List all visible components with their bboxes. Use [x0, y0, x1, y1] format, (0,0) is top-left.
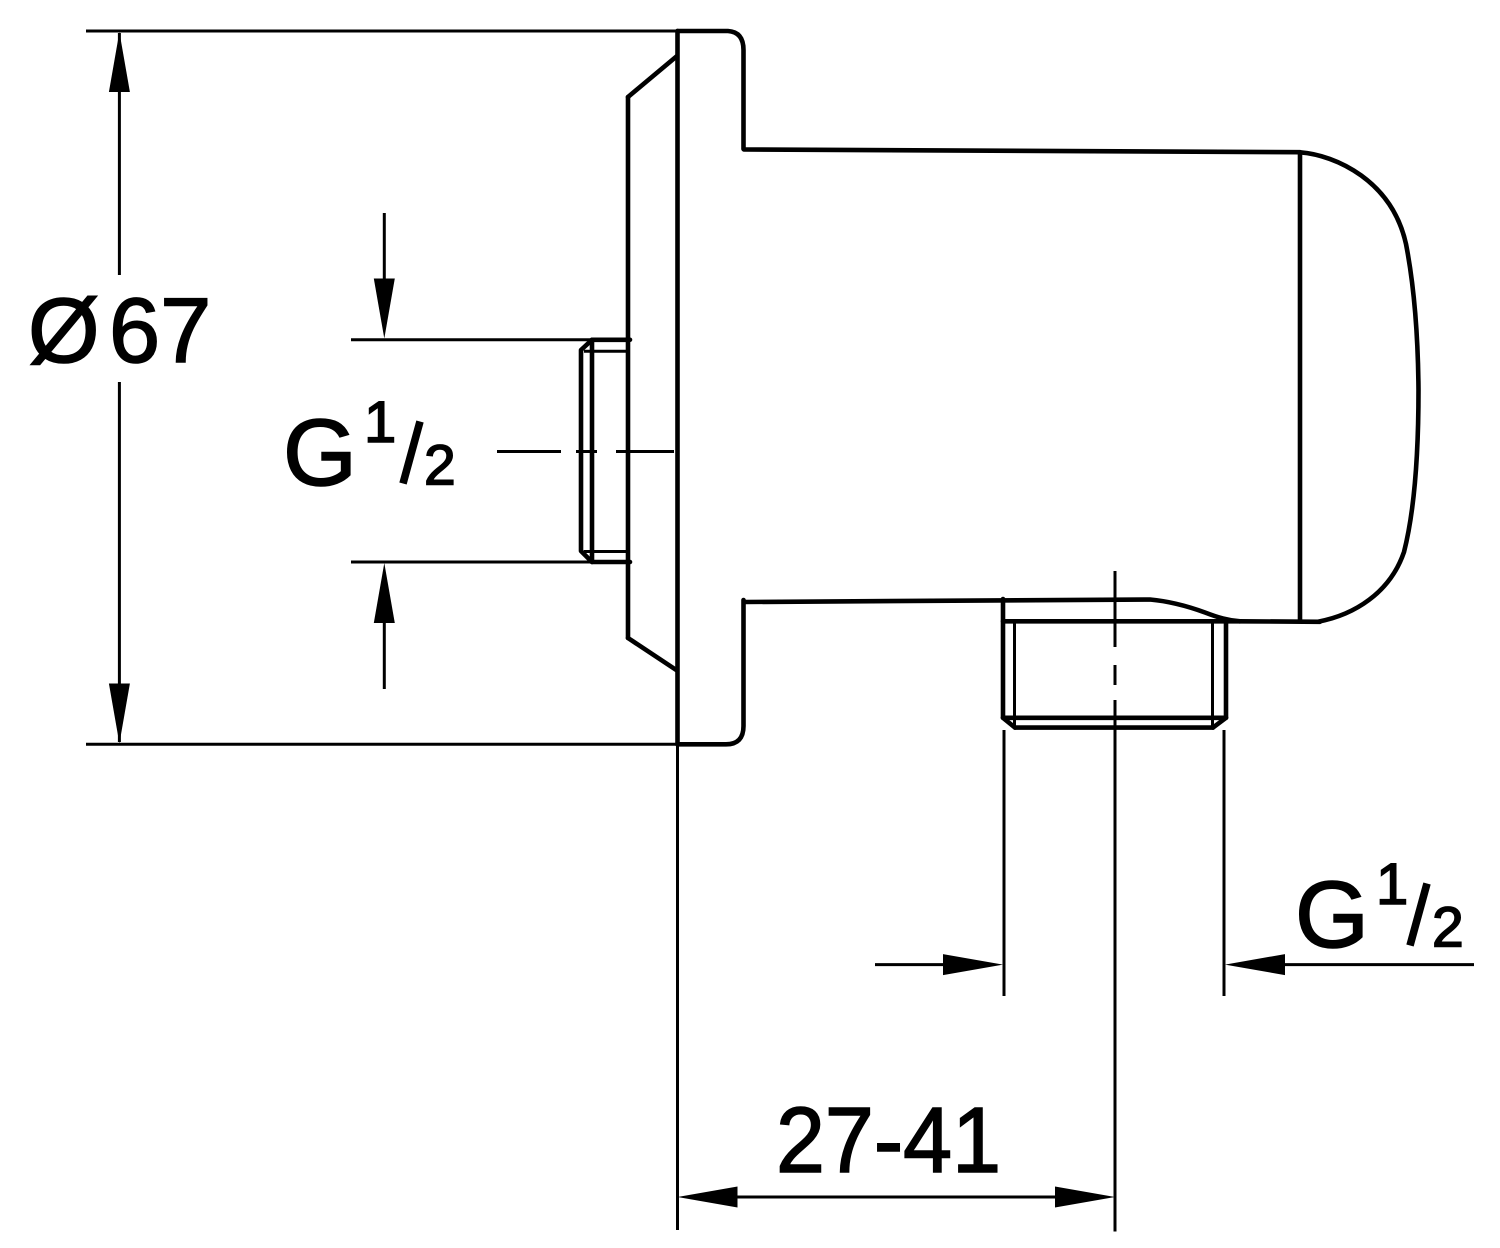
dia67 extension line bottom: [86, 743, 680, 746]
G12 left arrow line bottom: [383, 621, 386, 689]
flange cone upper chamfer: [628, 56, 677, 97]
flange bottom rim: [679, 600, 744, 744]
27-41 extension line: [676, 746, 679, 1230]
end cap joint line: [1298, 153, 1303, 622]
bottom outlet major line: [1003, 715, 1226, 720]
svg-text:27-41: 27-41: [776, 1088, 1001, 1192]
G12 left arrowhead down: [374, 279, 395, 339]
bottom outlet left chamfer: [1003, 718, 1015, 728]
bottom outlet minor diameter left: [1013, 622, 1016, 726]
27-41 arrowhead left: [678, 1187, 738, 1208]
G12 bottom dimension line left: [875, 963, 945, 966]
left thread minor diameter bottom: [584, 550, 630, 553]
G12 left extension line top: [351, 338, 595, 341]
left thread nipple outline: [581, 340, 630, 562]
svg-text:Ø: Ø: [28, 280, 100, 382]
dia67 dimension line: [118, 33, 121, 742]
svg-text:1: 1: [364, 390, 396, 455]
G12 bottom arrowhead left: [1225, 954, 1285, 975]
svg-text:2: 2: [424, 434, 456, 498]
svg-text:67: 67: [109, 280, 211, 382]
27-41 dimension line: [736, 1196, 1056, 1199]
G12 bottom dimension line right: [1283, 963, 1474, 966]
bottom outlet extension line left: [1003, 730, 1006, 996]
dia67 arrowhead down: [109, 684, 130, 744]
flange top rim: [678, 31, 744, 149]
bottom outlet minor diameter right: [1211, 622, 1214, 726]
body bottom line: [744, 600, 1240, 622]
body bottom rear line: [1003, 619, 1320, 624]
G12 left label fraction slash: [403, 422, 420, 484]
G12 left arrow line top: [383, 213, 386, 281]
left thread chamfer edge: [590, 340, 595, 562]
flange cone edge: [626, 97, 631, 638]
G12 bottom label fraction slash: [1410, 884, 1427, 946]
body top line: [744, 150, 1300, 153]
svg-text:G: G: [1295, 862, 1369, 968]
bottom outlet left edge: [1001, 599, 1006, 718]
left thread centerline: [497, 450, 674, 453]
svg-text:1: 1: [1376, 852, 1408, 917]
bottom outlet right edge: [1224, 622, 1229, 718]
left thread minor diameter top: [584, 350, 630, 353]
svg-text:G: G: [283, 400, 357, 506]
G12 bottom arrowhead right: [943, 954, 1003, 975]
G12 left arrowhead up: [374, 563, 395, 623]
end cap dome: [1300, 152, 1419, 621]
27-41 arrowhead right: [1055, 1187, 1115, 1208]
G12 left extension line bottom: [351, 561, 595, 564]
bottom outlet centerline: [1114, 571, 1117, 1232]
bottom outlet end face: [1015, 725, 1213, 730]
bottom outlet right chamfer: [1213, 718, 1226, 728]
flange cone lower chamfer: [628, 638, 677, 671]
dia67 extension line top: [86, 30, 678, 33]
svg-text:2: 2: [1432, 896, 1464, 960]
bottom outlet extension line right: [1223, 730, 1226, 996]
dia67 arrowhead up: [109, 32, 130, 92]
flange back face: [675, 31, 680, 745]
